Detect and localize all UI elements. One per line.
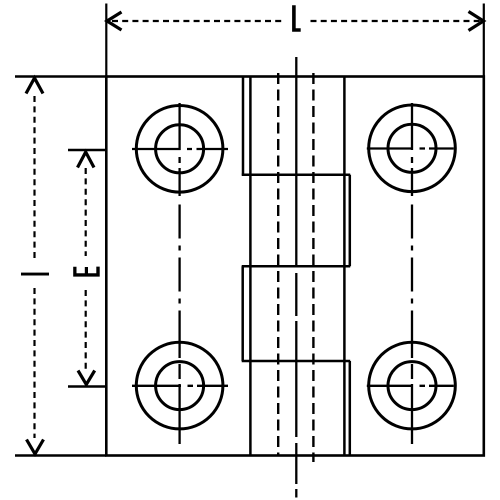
hole bottom-left outer	[136, 342, 223, 429]
dimension line L dashed	[112, 20, 285, 22]
hidden pin line right	[312, 73, 314, 462]
extension line E top	[68, 149, 106, 151]
label L	[292, 5, 301, 32]
dimension line l dashed	[33, 96, 35, 262]
hinge leaf outline	[106, 77, 484, 456]
extension line E bottom	[68, 385, 106, 387]
barrel edge left segment C	[241, 266, 244, 361]
knuckle joint line 2	[242, 265, 351, 268]
hole centerline left column	[178, 103, 180, 196]
hole bottom-left inner	[156, 362, 204, 410]
hole bottom-right outer	[369, 342, 456, 429]
arrowhead l bottom	[27, 440, 44, 455]
barrel edge left segment A	[242, 77, 245, 175]
hole centerline right column	[411, 103, 413, 196]
extension line top-left horizontal (l dim)	[15, 75, 106, 77]
knuckle joint line 1	[242, 174, 351, 177]
hole top-right outer	[369, 105, 456, 192]
hole top-right horizontal centerline	[367, 147, 454, 149]
arrowhead L left	[107, 12, 122, 30]
hole top-right inner	[388, 124, 436, 172]
hole bottom-left horizontal centerline	[132, 385, 228, 387]
dimension line E dashed	[85, 168, 87, 256]
barrel edge right segment B	[349, 175, 352, 266]
hole top-left inner	[156, 125, 204, 173]
arrowhead E bottom	[78, 371, 95, 385]
hole top-left horizontal centerline	[132, 148, 228, 150]
label E	[73, 267, 100, 277]
barrel edge right segment D	[349, 361, 352, 456]
extension line right vertical (L dim)	[483, 4, 485, 77]
left leaf knuckle edge	[249, 77, 252, 456]
knuckle joint line 3	[242, 360, 351, 363]
label l	[21, 273, 49, 276]
right leaf knuckle edge	[343, 77, 346, 456]
extension line bottom-left horizontal (l dim)	[15, 454, 106, 456]
hole bottom-right inner	[388, 362, 436, 410]
arrowhead l top	[26, 78, 43, 94]
hidden pin line left	[277, 73, 279, 456]
arrowhead E top	[78, 152, 95, 168]
pin center axis	[295, 57, 297, 498]
arrowhead L right	[469, 12, 484, 31]
extension line left vertical (L dim)	[105, 4, 107, 77]
hole top-left outer	[136, 106, 223, 193]
hole bottom-right horizontal centerline	[367, 385, 454, 387]
